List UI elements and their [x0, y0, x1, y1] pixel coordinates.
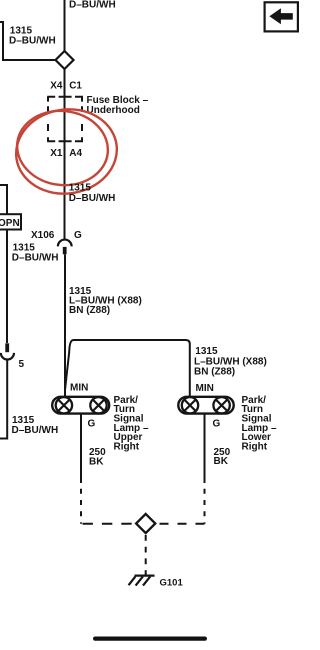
svg-text:G: G [88, 419, 96, 430]
wire hidden (dashed) splice to ground [145, 535, 147, 575]
wire main vertical from top to splice diamond [64, 0, 66, 52]
wire hidden (dashed) lower lamp ground run [204, 489, 206, 524]
svg-text:MIN: MIN [196, 383, 214, 394]
svg-text:D–BU/WH: D–BU/WH [9, 36, 56, 47]
svg-text:A4: A4 [69, 148, 82, 159]
svg-text:BN (Z88): BN (Z88) [194, 367, 235, 378]
connector pin 5 (male stub into female cup) [5, 343, 9, 352]
svg-text:BK: BK [214, 456, 229, 467]
svg-text:BK: BK [89, 456, 104, 467]
label 1315 D-BU/WH (below fuse block) [69, 182, 116, 203]
svg-text:D–BU/WH: D–BU/WH [12, 252, 59, 263]
svg-text:G: G [74, 230, 82, 241]
wire left feed down into upper lamp [64, 336, 66, 397]
splice (open diamond) ground junction [136, 514, 155, 533]
lamp E1 park/turn signal upper right (stadium with two bulbs) [52, 397, 109, 414]
svg-text:BN (Z88): BN (Z88) [69, 305, 110, 316]
svg-text:5: 5 [19, 359, 25, 370]
svg-text:Right: Right [242, 441, 268, 452]
wire left branch from page edge to splice diamond [0, 22, 55, 60]
wire hidden (dashed) upper lamp ground run [80, 489, 82, 524]
back arrow button (top right) [265, 2, 298, 31]
red annotation circle (hand drawn) [11, 103, 123, 200]
svg-text:D–BU/WH: D–BU/WH [12, 425, 59, 436]
wire from OPN box down to connector 5 [6, 230, 8, 343]
label 1315 D-BU/WH (lower left) [12, 415, 59, 436]
fuse block - underhood dashed outline [47, 97, 83, 142]
svg-text:G101: G101 [160, 578, 184, 589]
label 250 BK (lower) [214, 447, 231, 467]
svg-text:C1: C1 [69, 81, 82, 92]
wire main vertical from splice through fuse block to X106 [64, 69, 66, 239]
wire main vertical X106 to branch point [64, 254, 66, 336]
svg-text:G: G [213, 419, 221, 430]
label 1315 D-BU/WH (at X106) [12, 243, 59, 264]
svg-text:X1: X1 [50, 148, 63, 159]
label Park/Turn Signal Lamp - Lower Right [242, 395, 277, 453]
svg-text:D–BU/WH: D–BU/WH [69, 193, 116, 204]
wire hidden (dashed) horizontal left to splice [83, 523, 137, 525]
wire from connector 5 down and out left edge [0, 359, 7, 438]
bottom home indicator bar [93, 637, 207, 641]
wire hidden (dashed) horizontal right to splice [155, 523, 204, 525]
splice S (open diamond) [56, 51, 74, 69]
ground G101 chassis symbol [129, 576, 155, 586]
lamp E2 park/turn signal lower right (stadium with two bulbs) [178, 397, 233, 414]
connector X106 (female dome over male stub) [58, 240, 72, 247]
label 1315 D-BU/WH (top left branch) [9, 26, 56, 47]
svg-text:OPN: OPN [0, 218, 20, 229]
svg-text:Right: Right [114, 441, 140, 452]
svg-text:D–BU/WH: D–BU/WH [69, 0, 116, 10]
wire branch from junction up and across to right lamp [65, 340, 190, 397]
switch box OPN (clipped at left edge) [0, 214, 21, 229]
wire left circuit from page edge down to OPN switch box [0, 185, 7, 215]
label Fuse Block - Underhood [87, 95, 149, 116]
wire ground lead upper lamp [80, 414, 82, 483]
label Park/Turn Signal Lamp - Upper Right [114, 395, 149, 453]
label 1315 L-BU/WH (X88) BN (Z88) right [194, 346, 267, 378]
svg-text:X4: X4 [50, 81, 63, 92]
label 250 BK (upper) [89, 447, 106, 467]
svg-text:1315: 1315 [69, 182, 92, 193]
svg-text:MIN: MIN [70, 383, 88, 394]
wire ground lead lower lamp [204, 414, 206, 483]
label 1315 L-BU/WH (X88) BN (Z88) left [69, 286, 142, 316]
svg-text:X106: X106 [31, 230, 55, 241]
